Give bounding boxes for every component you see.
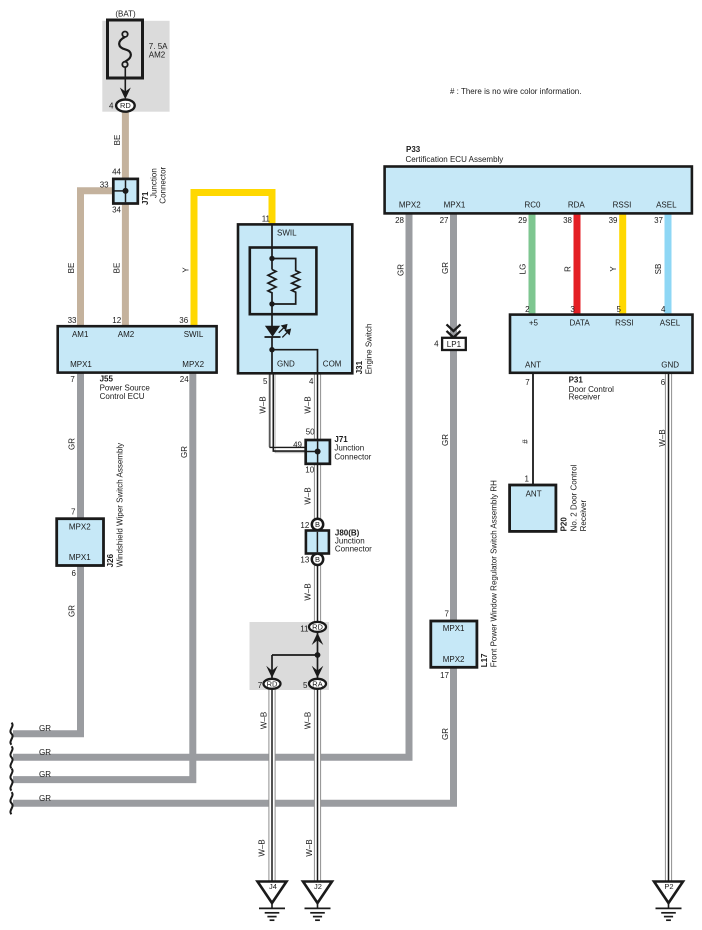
svg-text:6: 6 [72,569,77,578]
svg-text:GR: GR [441,262,450,274]
svg-text:7: 7 [445,609,450,618]
svg-text:W–B: W–B [257,839,266,856]
svg-text:GND: GND [661,361,679,370]
svg-text:3: 3 [570,305,575,314]
connector RD pin11 oval [309,622,326,632]
wire BE J71 branch to J55.AM1 [81,191,114,328]
svg-text:7: 7 [525,378,530,387]
break squiggle wire3 [10,769,12,791]
svg-text:W–B: W–B [304,487,313,504]
LED symbol [265,326,280,337]
svg-text:J31: J31 [355,360,364,374]
svg-text:P20: P20 [560,517,569,532]
svg-text:Control ECU: Control ECU [100,392,145,401]
svg-text:5: 5 [303,681,308,690]
svg-text:J4: J4 [269,882,277,891]
fuse AM2 element [119,32,131,68]
wire GR J55.MPX2 down to left exit [13,373,193,780]
svg-text:39: 39 [609,216,618,225]
svg-text:L17: L17 [480,653,489,667]
svg-text:RC0: RC0 [524,201,541,210]
svg-text:MPX2: MPX2 [399,201,421,210]
svg-text:5: 5 [263,377,268,386]
svg-text:GR: GR [441,434,450,446]
WIRES-GRAY [13,213,454,803]
break squiggle wire4 [10,792,12,814]
svg-text:LP1: LP1 [447,340,462,349]
svg-text:SB: SB [654,264,663,275]
junction connector J71 (upper) [113,179,138,204]
svg-text:10: 10 [305,465,314,474]
engine switch internal wiring [268,224,318,373]
svg-text:38: 38 [563,216,572,225]
svg-text:11: 11 [262,214,271,223]
wire ANT P31.ANT to P20.ANT [532,373,534,486]
switch J26 box [57,519,104,566]
svg-text:#: # [521,439,530,444]
junction connector J80(B) [306,531,329,554]
svg-text:MPX1: MPX1 [69,553,91,562]
svg-text:RA: RA [312,679,322,688]
svg-text:DATA: DATA [570,318,591,327]
svg-text:J26: J26 [106,553,115,567]
svg-text:Connector: Connector [158,166,167,203]
svg-text:Connector: Connector [334,452,371,461]
svg-text:J71: J71 [334,435,348,444]
svg-text:GND: GND [277,359,295,368]
wire LG P33.RC0 to P31.+5 [529,213,536,316]
svg-text:33: 33 [68,316,77,325]
svg-text:W–B: W–B [304,583,313,600]
svg-text:+5: +5 [529,318,539,327]
svg-text:No. 2 Door Control: No. 2 Door Control [569,464,578,531]
svg-text:MPX1: MPX1 [443,624,465,633]
wire W-B P31.GND to ground P2 [665,373,672,883]
connector RD pin4 oval [116,100,135,112]
svg-text:GR: GR [67,605,76,617]
wire GR P33.MPX1 through LP1 to L17.MPX1 [450,213,457,624]
svg-text:29: 29 [518,216,527,225]
wire Y J55.SWIL to J31.SWIL [194,193,272,329]
wire W-B splice RD7 to ground J4 [269,689,276,884]
wire W-B J80 pin13 to splice RD11 [314,559,321,624]
wire GR J26.MPX1 down to left exit [13,563,81,734]
svg-text:MPX1: MPX1 [444,201,466,210]
splice branch dot [315,652,321,658]
svg-text:GR: GR [396,264,405,276]
break squiggle wire1 [10,723,12,745]
svg-text:6: 6 [661,378,666,387]
wire R P33.RDA to P31.DATA [574,213,581,316]
svg-text:2: 2 [525,305,530,314]
wire W-B J31.COM to J71 pin50 [314,373,321,441]
svg-text:Certification ECU Assembly: Certification ECU Assembly [406,155,504,164]
wire fuse to RD connector [124,67,126,95]
svg-text:7. 5A: 7. 5A [149,42,168,51]
wire GR J55.MPX1 to J26.MPX2 [77,373,84,521]
fuse AM2 7.5A box [108,20,143,78]
engine switch inner resistor box [250,248,317,315]
svg-text:P2: P2 [664,882,673,891]
svg-text:GR: GR [67,438,76,450]
arrow down into RD7 [266,666,278,678]
svg-text:COM: COM [323,359,342,368]
connector LP1 box [442,338,466,350]
svg-text:LG: LG [519,264,528,275]
connector RD pin7 oval [264,679,281,689]
svg-text:ASEL: ASEL [660,318,681,327]
connector B circle pin12 [312,519,323,530]
svg-text:P33: P33 [406,145,421,154]
svg-text:MPX2: MPX2 [69,522,91,531]
svg-text:Junction: Junction [150,168,159,198]
svg-text:AM2: AM2 [149,51,166,60]
svg-text:W–B: W–B [658,429,667,446]
svg-text:# : There is no wire color inf: # : There is no wire color information. [450,87,581,96]
receiver P31 box [510,315,693,373]
svg-text:GR: GR [180,446,189,458]
break squiggle wire2 [10,746,12,768]
svg-text:MPX2: MPX2 [182,360,204,369]
svg-text:7: 7 [71,507,76,516]
ECU J55 box [58,326,217,372]
svg-text:AM1: AM1 [72,330,89,339]
svg-text:B: B [315,520,320,529]
ground J4 [258,882,287,921]
svg-text:W–B: W–B [304,712,313,729]
svg-text:R: R [564,266,573,272]
svg-text:44: 44 [112,168,121,177]
svg-text:BE: BE [113,135,122,146]
svg-text:SWIL: SWIL [277,229,297,238]
svg-text:Receiver: Receiver [569,393,601,402]
wire W-B splice RA5 to ground J2 [314,689,321,884]
svg-text:36: 36 [179,316,188,325]
junction connector J71 (lower) [306,440,330,464]
svg-text:Receiver: Receiver [579,499,588,531]
svg-text:4: 4 [309,377,314,386]
svg-text:GR: GR [39,748,51,757]
svg-text:7: 7 [70,375,75,384]
svg-text:11: 11 [300,624,309,633]
svg-text:ASEL: ASEL [656,201,677,210]
svg-text:33: 33 [100,180,109,189]
svg-text:4: 4 [109,101,114,110]
svg-text:RSSI: RSSI [613,201,632,210]
receiver P20 box [510,485,556,531]
svg-text:28: 28 [395,216,404,225]
switch L17 box [431,621,477,667]
svg-text:24: 24 [180,375,189,384]
svg-text:RDA: RDA [568,201,586,210]
svg-text:P31: P31 [569,376,584,385]
svg-text:SWIL: SWIL [184,330,204,339]
arrow into RD connector [120,88,131,100]
svg-text:BE: BE [113,263,122,274]
svg-text:49: 49 [293,440,302,449]
arrow down into RA5 [312,666,324,678]
svg-text:W–B: W–B [304,396,313,413]
svg-text:W–B: W–B [258,396,267,413]
wire GR L17.MPX2 down to left exit [13,664,454,803]
svg-text:B: B [315,555,320,564]
svg-text:GR: GR [39,724,51,733]
wire GR P33.MPX2 down to left exit [13,213,409,757]
svg-text:12: 12 [300,521,309,530]
WIRES-TAN [81,111,126,328]
svg-text:50: 50 [306,428,315,437]
svg-text:Front Power Window Regulator S: Front Power Window Regulator Switch Asse… [489,480,498,667]
svg-text:RD: RD [312,623,323,632]
wire SB P33.ASEL to P31.ASEL [665,213,672,316]
ground P2 [654,882,683,921]
svg-text:MPX1: MPX1 [70,360,92,369]
svg-text:27: 27 [440,216,449,225]
svg-text:13: 13 [300,556,309,565]
svg-text:4: 4 [434,340,439,349]
svg-text:(BAT): (BAT) [115,9,136,18]
svg-text:MPX2: MPX2 [443,655,465,664]
ground J2 [303,882,332,921]
connector LP1 chevrons [447,324,461,337]
svg-text:ANT: ANT [526,490,542,499]
svg-text:37: 37 [654,216,663,225]
svg-text:Engine Switch: Engine Switch [365,324,374,375]
wire Y P33.RSSI to P31.RSSI [619,213,626,316]
arrow up into RD11 [312,633,324,645]
svg-text:Windshield Wiper Switch Assemb: Windshield Wiper Switch Assembly [116,443,125,567]
connector B circle pin13 [312,554,323,565]
svg-text:Y: Y [609,266,618,272]
svg-text:J55: J55 [100,375,114,384]
wire W-B J71 pin10 to J80 pin12 [314,464,321,525]
svg-text:1: 1 [525,475,530,484]
svg-text:AM2: AM2 [118,330,135,339]
svg-text:Y: Y [181,267,190,273]
svg-text:Connector: Connector [335,545,372,554]
svg-text:GR: GR [39,770,51,779]
svg-text:W–B: W–B [305,839,314,856]
connector RA pin5 oval [309,679,326,689]
svg-text:RD: RD [267,679,278,688]
svg-text:J2: J2 [314,882,322,891]
svg-text:34: 34 [112,205,121,214]
shade battery area [102,21,169,112]
svg-text:RSSI: RSSI [615,318,634,327]
svg-text:17: 17 [440,671,449,680]
svg-text:BE: BE [67,263,76,274]
svg-text:ANT: ANT [525,361,541,370]
svg-text:GR: GR [39,794,51,803]
svg-text:4: 4 [661,305,666,314]
svg-text:Junction: Junction [334,444,364,453]
ECU P33 box [385,167,692,214]
LED light arrows [279,325,291,338]
svg-text:W–B: W–B [259,712,268,729]
wire BE fuse to J71 to J55.AM2 [122,111,129,328]
shade RD/RA splice area [250,622,330,690]
engine switch J31 box [238,224,352,373]
svg-text:GR: GR [441,728,450,740]
wire W-B J31.GND to J71 pin49 (corner) [269,373,306,452]
splice wiring inside shade [272,632,318,679]
svg-text:7: 7 [258,681,263,690]
svg-text:5: 5 [616,305,621,314]
engine switch junction dots [269,256,274,261]
svg-text:12: 12 [112,316,121,325]
svg-text:RD: RD [120,101,131,110]
